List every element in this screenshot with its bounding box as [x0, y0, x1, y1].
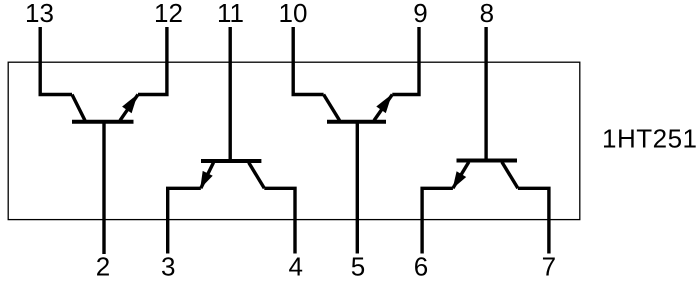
wire pin 8 to Q4 base: [484, 27, 487, 160]
wire Q4 emitter to pin 6: [422, 188, 453, 253]
transistor Q3: [324, 94, 393, 122]
svg-text:7: 7: [542, 252, 556, 281]
svg-text:8: 8: [480, 0, 494, 28]
svg-text:12: 12: [154, 0, 183, 28]
svg-text:5: 5: [351, 252, 365, 281]
svg-text:13: 13: [25, 0, 54, 28]
svg-text:10: 10: [279, 0, 308, 28]
svg-text:4: 4: [288, 252, 302, 281]
wire Q3 base to pin 5: [356, 122, 359, 254]
svg-text:9: 9: [413, 0, 427, 28]
transistor Q2: [200, 161, 264, 189]
wire Q2 emitter to pin 3: [168, 188, 201, 253]
svg-text:6: 6: [414, 252, 428, 281]
svg-text:2: 2: [96, 252, 110, 281]
transistor Q4: [453, 161, 518, 189]
wire pin 13 to Q1 collector: [40, 27, 72, 95]
svg-text:3: 3: [161, 252, 175, 281]
svg-text:1HT251: 1HT251: [602, 123, 698, 153]
wire pin 9 to Q3 emitter: [392, 27, 419, 95]
IC outline box: [8, 62, 580, 219]
wire Q1 base to pin 2: [102, 122, 105, 254]
wire pin 11 to Q2 base: [228, 27, 231, 160]
wire pin 10 to Q3 collector: [293, 27, 323, 95]
wire Q2 collector to pin 4: [264, 188, 295, 253]
wire pin 12 to Q1 emitter: [138, 27, 167, 95]
svg-text:11: 11: [217, 0, 244, 28]
transistor Q1: [72, 94, 138, 122]
wire Q4 collector to pin 7: [518, 188, 549, 253]
